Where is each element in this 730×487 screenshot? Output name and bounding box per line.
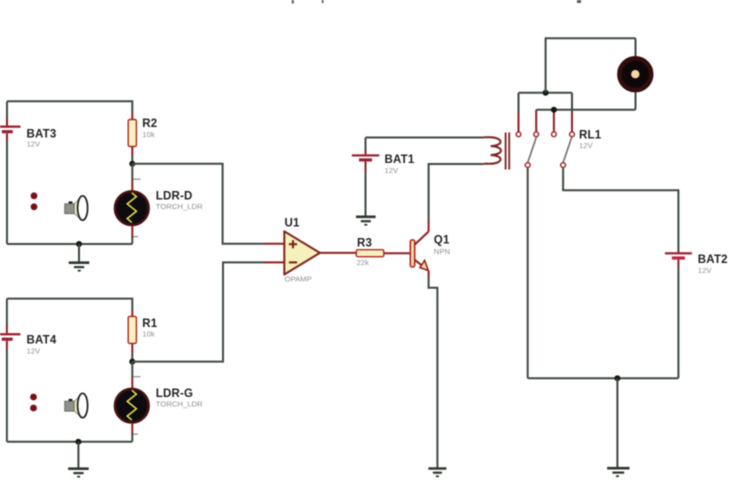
wire LDR-D to bottom [131,236,133,244]
battery BAT4 pin + [6,326,8,334]
resistor R1 pin bottom [131,343,133,353]
svg-text:RL1: RL1 [579,130,602,142]
svg-text:U1: U1 [285,218,301,230]
wire top (BAT4 loop top) [7,299,132,310]
resistor R2 [128,120,136,147]
relay RL1 core bars [506,133,510,170]
svg-text:LDR-D: LDR-D [156,191,193,203]
junction bottom-left loop [76,241,82,247]
wire bottom (BAT3 loop bottom) [7,243,132,245]
svg-text:BAT1: BAT1 [385,154,415,166]
wire pin4 up [571,93,573,113]
torch icon (top loop) [65,196,88,220]
resistor R3 [356,250,384,257]
wire motor bottom lead [635,92,637,110]
battery BAT4 pin - [6,341,8,349]
junction bottom (BAT4 loop) [75,439,81,445]
transistor Q1 collector diagonal [415,232,429,245]
op-amp U1 [284,231,320,274]
relay RL1 pin stub 4 [571,113,573,132]
svg-text:12V: 12V [698,266,713,275]
LDR-G pin tick bottom [131,433,138,435]
ground (right bus) [607,378,629,476]
battery BAT2 pin + [677,251,679,254]
relay RL1 pin circle 3 [552,132,557,137]
LDR-G pin top [131,378,133,389]
wire left upper (BAT4 + lead) [6,299,8,326]
wire node to LDR-D [131,164,133,180]
junction node R1/LDR-G [129,359,135,365]
svg-text:R2: R2 [142,118,157,130]
battery BAT3 pin + [6,118,8,126]
LDR-D pin tick top [134,178,141,180]
wire pole1 down [527,168,529,379]
junction NO bus (pin3) [551,107,557,113]
relay RL1 pin circle 1 [516,132,521,137]
resistor R1 [128,316,136,343]
wire NC bus (pin1-pin4) [519,92,573,94]
wire Q1 emitter to ground [429,278,438,468]
LDR-D pin bottom [131,226,133,236]
battery BAT4 [0,333,20,341]
svg-text:10k: 10k [142,130,155,139]
wire node to op-amp + input [132,164,264,244]
wire left upper (BAT3 + lead) [6,101,8,118]
svg-text:12V: 12V [27,140,42,149]
resistor R2 pin top [131,112,133,120]
wire NO bus (pin2-motor) [536,109,635,111]
battery BAT1 pin - [365,162,367,173]
junction node R2/LDR-D [129,161,135,167]
wire left lower (BAT3 - to bottom) [6,141,8,244]
resistor R2 pin bottom [131,147,133,157]
LDR-G [115,389,149,423]
wire R2 to node [131,156,133,164]
svg-text:R1: R1 [142,318,158,330]
op-amp U1 pin output [320,252,356,254]
relay RL1 pin circle 4 [570,132,575,137]
battery BAT1 [352,154,380,161]
junction NC bus [543,90,549,96]
junction bottom right [614,375,620,381]
svg-text:R3: R3 [357,237,372,249]
LDR-D pin top [131,180,133,191]
wire bottom right bus [528,377,679,379]
indicator dots (top loop) [31,192,38,210]
svg-text:BAT4: BAT4 [27,335,57,347]
wire left lower (BAT4 - to bottom) [6,349,8,442]
svg-text:OPAMP: OPAMP [285,274,312,283]
ground (Q1 emitter) [428,469,446,477]
resistor R1 pin top [131,310,133,317]
LDR-G pin tick top [134,376,141,378]
wire R3 to Q1 base [384,252,411,254]
torch icon (bottom loop) [65,393,88,417]
transistor Q1 emitter pin down [428,271,430,278]
wire NC bus to motor top [546,38,636,93]
relay RL1 pin stub 3 [553,110,555,132]
wire LDR-G to bottom [131,434,133,442]
relay RL1 switch arm 1 [528,137,537,163]
battery BAT3 pin - [6,133,8,141]
transistor Q1 emitter diagonal [415,260,424,267]
wire R1 to node [131,353,133,362]
svg-text:Q1: Q1 [434,234,450,246]
battery BAT2 [665,252,692,259]
relay RL1 coil [484,137,501,164]
transistor Q1 collector pin up [428,220,430,232]
transistor Q1 base bar [410,240,414,267]
op-amp U1 pin + input [265,243,285,245]
wire BAT1 to ground [365,172,367,216]
svg-text:22k: 22k [357,258,370,267]
relay RL1 pin stub 2 [535,110,537,132]
wire pole2 to BAT2 [563,168,678,251]
ground (BAT4 loop) [68,442,89,477]
wire BAT1 top [365,138,367,151]
wire BAT1 to relay coil top [366,137,484,139]
wire pin1 up [518,93,520,113]
battery BAT3 [0,126,21,134]
ground (BAT1) [356,217,376,225]
op-amp U1 pin - input [265,261,285,263]
LDR-G pin bottom [131,423,133,433]
ground (BAT3 loop) [69,244,90,271]
svg-text:12V: 12V [385,166,400,175]
motor [619,58,651,90]
indicator dots (bottom loop) [30,394,37,412]
svg-text:10k: 10k [142,329,155,338]
svg-text:TORCH_LDR: TORCH_LDR [156,202,203,211]
LDR-D [115,191,149,225]
svg-text:TORCH_LDR: TORCH_LDR [156,400,203,409]
wire bottom (BAT4 loop bottom) [7,441,132,443]
battery BAT2 pin - [677,260,679,266]
wire top (BAT3 loop top) [7,101,132,112]
battery BAT1 pin + [365,150,367,155]
svg-text:LDR-G: LDR-G [156,388,193,400]
wire node to LDR-G [131,362,133,378]
LDR-D pin tick bottom [131,236,138,238]
svg-text:NPN: NPN [434,247,450,256]
relay RL1 pin stub 1 [518,113,520,132]
relay RL1 switch arm 2 [563,137,572,163]
transistor Q1 emitter arrow [420,260,429,270]
wire Q1 collector to relay coil [429,164,484,220]
relay RL1 pole circle 1 [525,163,530,168]
svg-text:12V: 12V [579,141,594,150]
relay RL1 pin circle 2 [534,132,539,137]
svg-text:BAT3: BAT3 [27,128,57,140]
relay RL1 pole circle 2 [561,163,566,168]
wire BAT2 down [677,266,679,378]
top cropped text remnants [292,0,581,4]
wire motor top lead [635,38,637,57]
wire node to op-amp - input [132,262,264,361]
svg-text:12V: 12V [27,346,42,355]
svg-text:BAT2: BAT2 [698,254,728,266]
